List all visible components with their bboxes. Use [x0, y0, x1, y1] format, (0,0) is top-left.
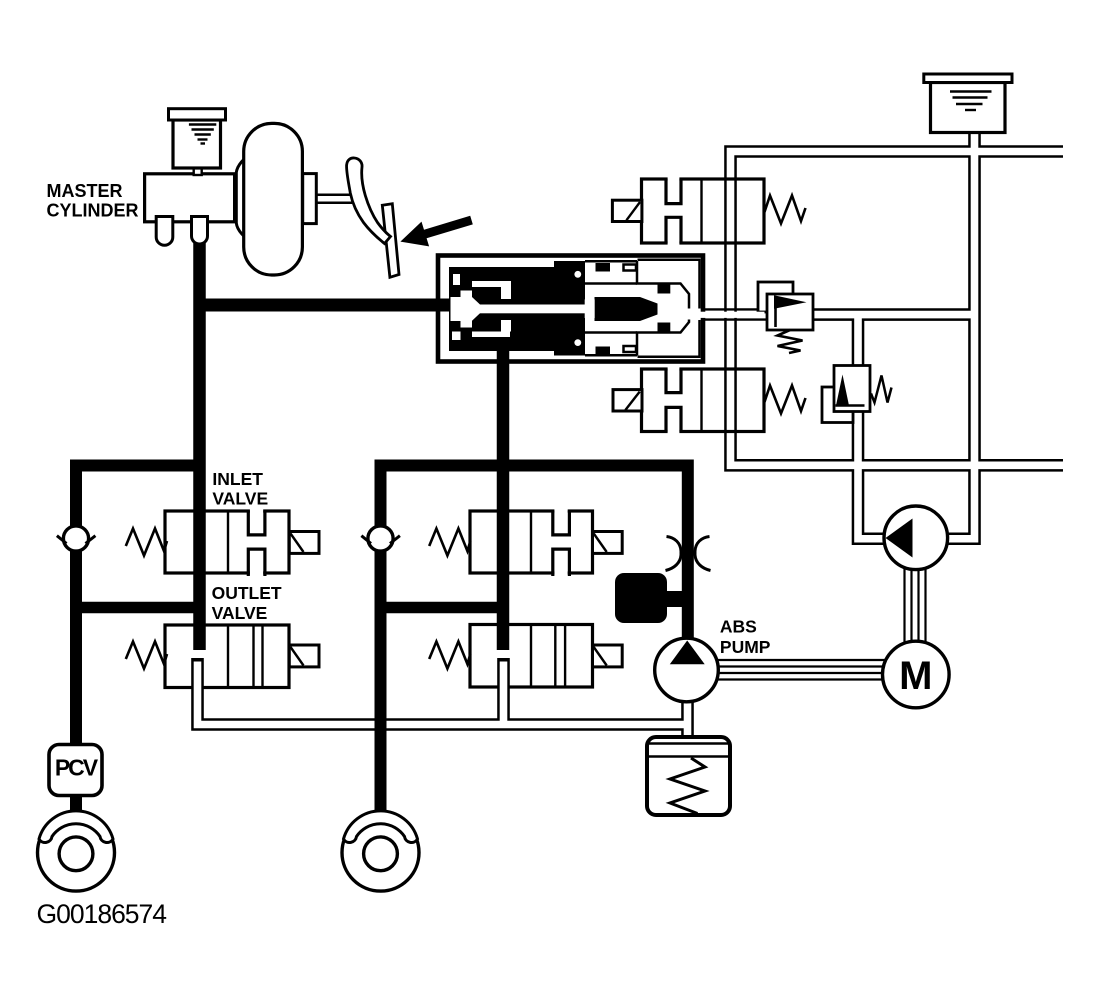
wheel 2	[342, 811, 419, 891]
thick brake lines	[76, 240, 688, 818]
spring of outlet valve 1	[126, 642, 167, 669]
spring of inlet valve 2	[429, 529, 470, 556]
upper pump circle	[884, 506, 948, 570]
svg-text:G00186574: G00186574	[37, 899, 167, 929]
pipe channel white inner faces	[198, 662, 688, 741]
spring inside accumulator	[670, 758, 705, 814]
booster rear plate	[303, 174, 317, 224]
proportioning valve black body section	[449, 261, 585, 356]
reservoir cap	[169, 109, 226, 120]
wire: branch between valves circuit 2	[381, 602, 504, 614]
spring of valve B	[765, 386, 806, 414]
spring right of RV2	[871, 376, 892, 403]
solenoid valve A (top right)	[612, 176, 805, 246]
damper box (black)	[615, 573, 667, 623]
PCV box	[49, 745, 102, 796]
inlet valve 1 body	[126, 507, 319, 576]
coil of outlet valve 2	[593, 645, 623, 667]
proportioning valve assembly (center)	[438, 256, 765, 362]
spring of inlet valve 1	[126, 529, 167, 556]
wire: branch to proportioning valve	[200, 299, 451, 312]
relief valve RV1	[758, 282, 813, 353]
master cylinder assembly	[145, 109, 317, 275]
coil of valve B	[613, 390, 642, 411]
port 2	[192, 217, 208, 245]
wire: relief branch down to upper pump left port	[858, 311, 886, 539]
wire: drain of outlet valve 1 and return pipe to pump	[198, 658, 688, 740]
proportioning valve piston spool	[595, 297, 658, 321]
ABS pump circle	[655, 638, 719, 702]
orifice symbol on pump line	[666, 537, 711, 571]
port 1	[156, 217, 173, 246]
reservoir stem	[194, 167, 202, 175]
arrow pointing at pedal	[400, 216, 472, 247]
coil of outlet valve 1	[289, 645, 319, 667]
spring below RV1	[778, 330, 803, 353]
black accents in cavity	[658, 285, 671, 294]
wire: ABS pump suction to accumulator	[681, 697, 694, 740]
booster front shell	[236, 150, 256, 246]
white cutouts	[451, 297, 461, 321]
svg-text:PCV: PCV	[55, 755, 99, 781]
coil of valve A	[612, 200, 642, 221]
svg-text:INLET: INLET	[212, 469, 263, 489]
svg-text:M: M	[899, 654, 932, 698]
spring of valve A	[765, 196, 806, 224]
wire: prop valve down through inlet valve 2	[497, 349, 510, 650]
reservoir (top right)	[924, 74, 1012, 133]
wire: below check circle 2 to wheel 2	[375, 551, 387, 813]
wheel 1	[38, 811, 115, 891]
check orifice circle 1	[57, 526, 96, 551]
reservoir body (top left)	[173, 120, 221, 168]
master cylinder body	[145, 174, 235, 222]
svg-text:VALVE: VALVE	[212, 489, 268, 509]
booster body	[244, 123, 303, 275]
motor circle	[883, 641, 950, 708]
wire: master cylinder down through inlet valve 1	[193, 240, 206, 650]
svg-text:MASTER: MASTER	[47, 181, 123, 201]
spring of outlet valve 2	[429, 642, 470, 669]
motor shaft lines	[700, 560, 926, 680]
proportioning valve outer housing	[438, 256, 703, 362]
wire: return manifold top run / left vertical / bottom run	[731, 130, 1068, 539]
outlet valve 2 body	[429, 625, 622, 688]
pedal arm	[347, 158, 391, 244]
wire: circuit 1 run and left drop	[76, 466, 200, 528]
fluid level symbol	[189, 125, 216, 144]
wire: middle run from relief valve RV1 to reservoir stem	[800, 308, 975, 321]
check orifice circle 2	[361, 526, 400, 551]
wire: circuit 2 run, left drop and right drop to pump	[381, 466, 688, 642]
push rod	[316, 195, 352, 203]
svg-text:CYLINDER: CYLINDER	[47, 200, 139, 220]
right cavity outline	[585, 260, 700, 357]
svg-text:ABS: ABS	[720, 616, 757, 636]
inlet valve 2 body	[429, 507, 622, 576]
wire: reservoir stem down to upper pump right port	[946, 130, 975, 539]
pedal pad	[382, 204, 399, 278]
pipe channel white inner faces	[731, 130, 1068, 539]
wire: branch between valves circuit 1	[76, 602, 200, 614]
wire: rod pipe from prop valve to relief valve 1	[689, 309, 772, 319]
wire: drain of outlet valve 2	[497, 658, 510, 725]
relief valve RV2	[822, 366, 892, 423]
coil of inlet valve 2	[593, 532, 623, 554]
svg-text:PUMP: PUMP	[720, 637, 771, 657]
accumulator	[647, 737, 730, 815]
coil of inlet valve 1	[289, 532, 319, 554]
wire: PCV to wheel 1	[70, 793, 82, 818]
svg-text:OUTLET: OUTLET	[212, 583, 282, 603]
wire: below check circle 1 to PCV	[70, 551, 82, 750]
svg-text:VALVE: VALVE	[212, 603, 268, 623]
solenoid valve B (right, lower)	[613, 366, 806, 435]
outlet valve 1 body	[126, 625, 319, 688]
